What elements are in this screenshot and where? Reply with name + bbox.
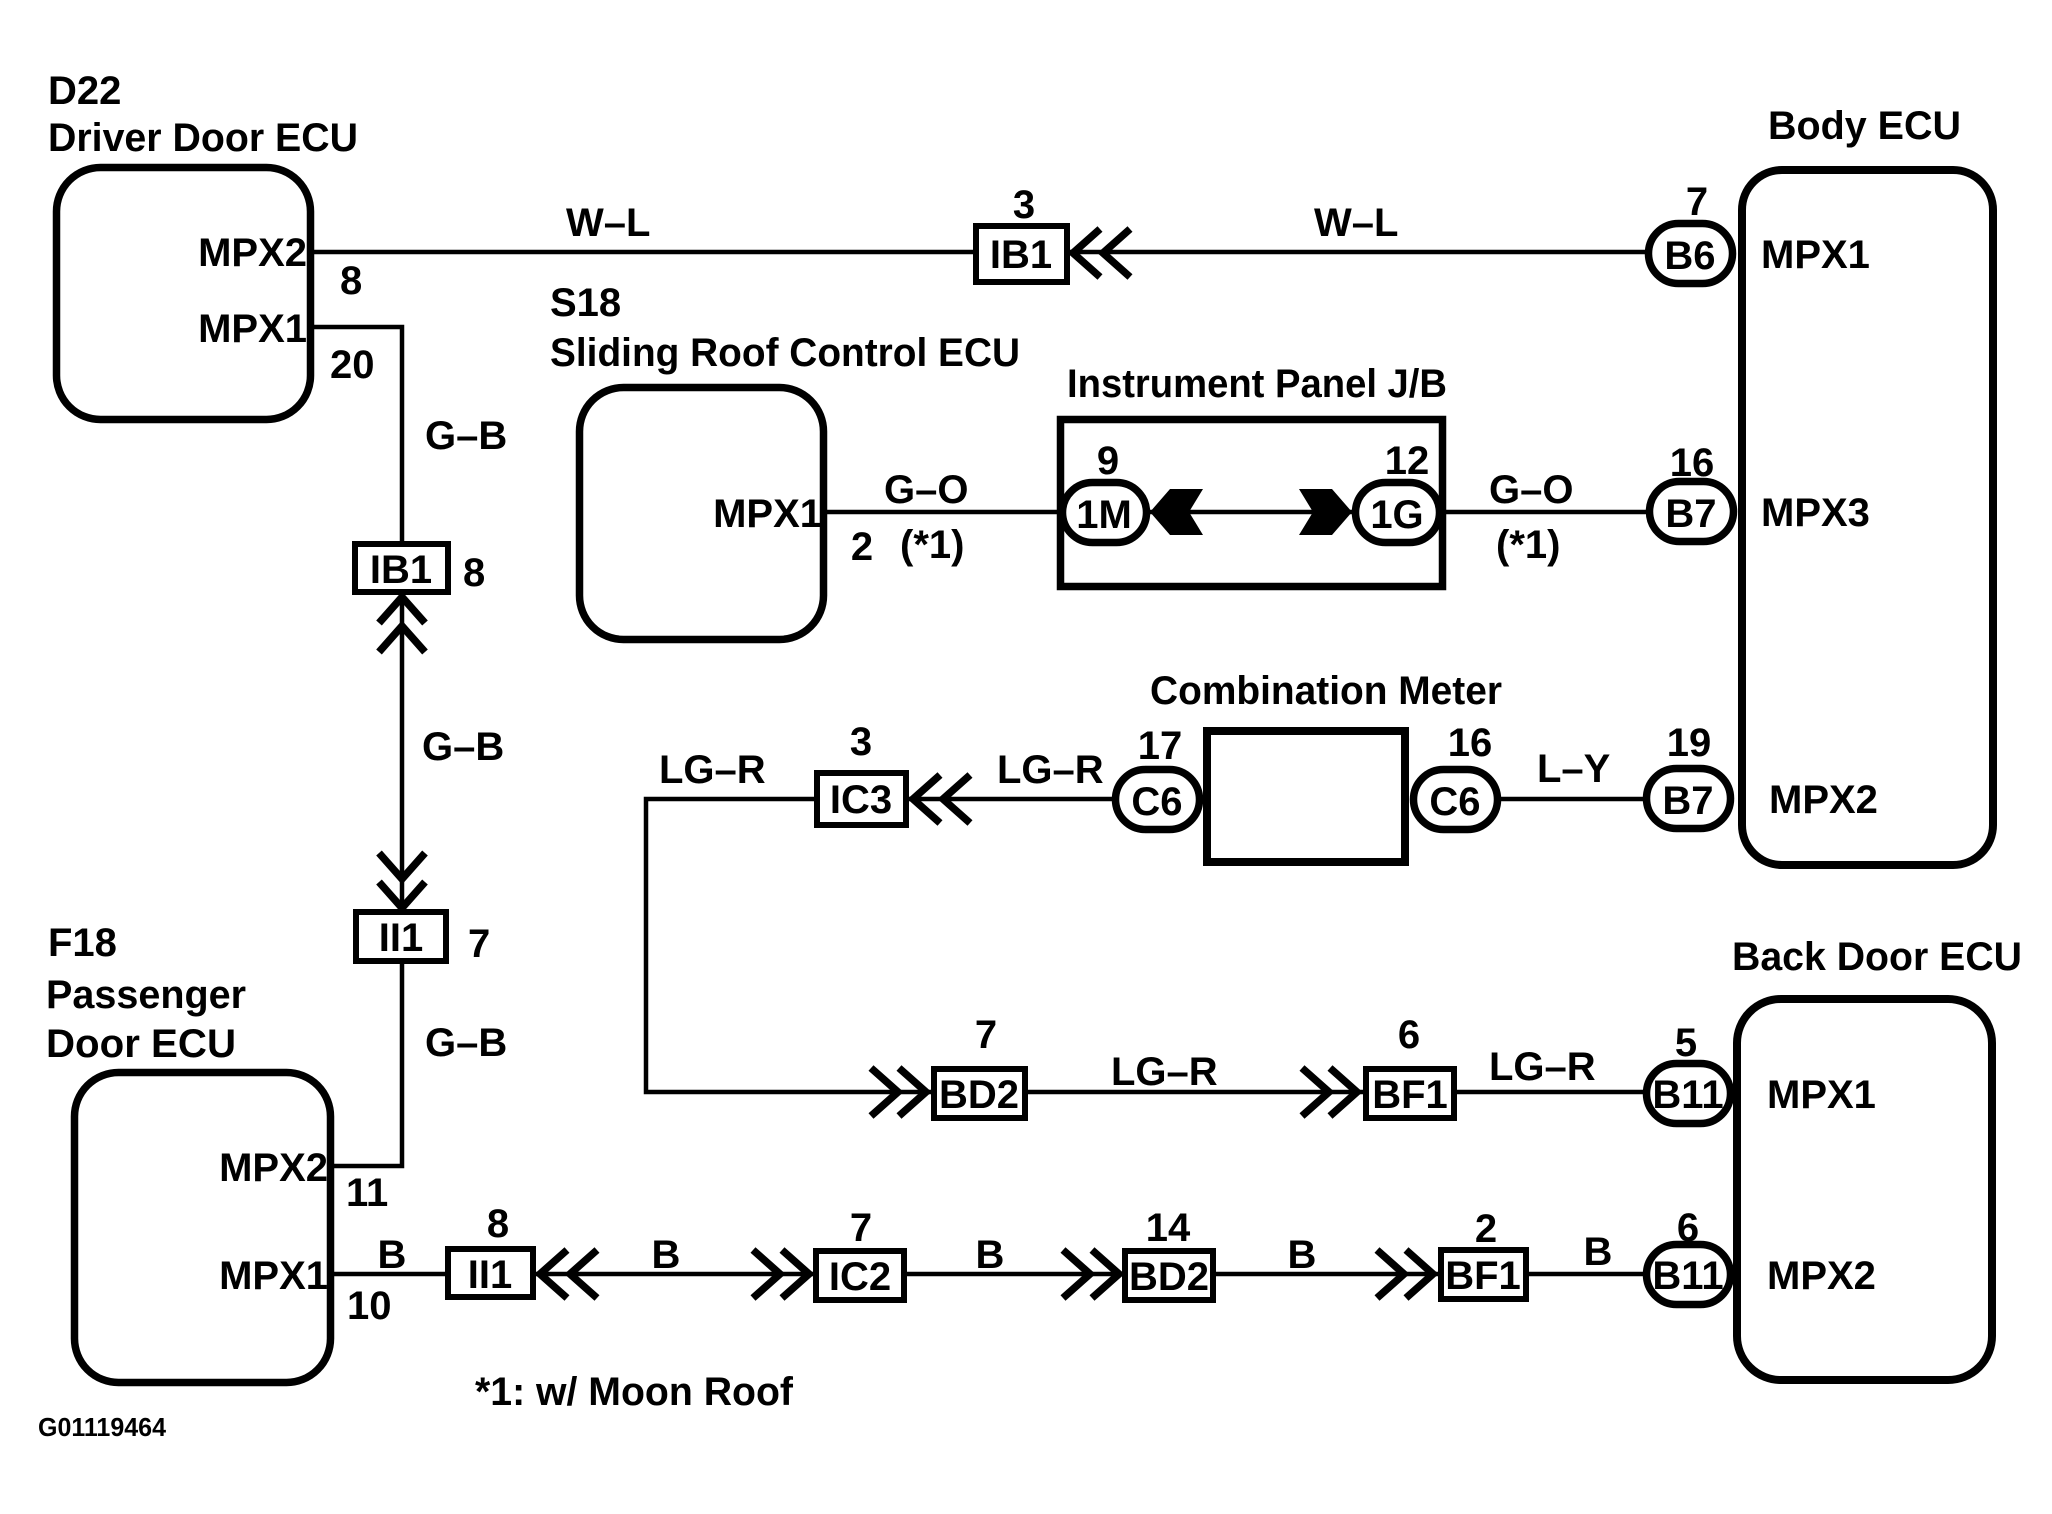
svg-text:C6: C6 (1131, 780, 1182, 824)
Driver Door ECU box D22 (57, 168, 311, 420)
svg-text:MPX1: MPX1 (713, 492, 822, 536)
wire LG-R from BF1 to Back Door B11 (1457, 1090, 1643, 1095)
svg-text:D22: D22 (48, 69, 121, 113)
svg-text:Body ECU: Body ECU (1768, 104, 1961, 148)
oval B7 (16) on Body ECU MPX3 (1650, 482, 1734, 542)
Combination Meter box (1207, 731, 1405, 862)
svg-text:B6: B6 (1664, 234, 1715, 278)
svg-text:7: 7 (975, 1013, 997, 1057)
svg-text:II1: II1 (468, 1253, 512, 1297)
svg-text:(*1): (*1) (1496, 523, 1560, 567)
oval 1G (12) in J/B (1356, 483, 1440, 543)
oval B6 (7) on Body ECU MPX1 (1649, 224, 1733, 284)
svg-text:B11: B11 (1652, 1073, 1723, 1117)
svg-text:11: 11 (346, 1171, 388, 1215)
svg-text:IC3: IC3 (830, 778, 892, 822)
svg-text:3: 3 (1013, 183, 1035, 227)
svg-text:Passenger: Passenger (46, 973, 246, 1017)
svg-text:9: 9 (1097, 439, 1119, 483)
connector IB1 left (8) (355, 544, 448, 592)
svg-text:MPX3: MPX3 (1761, 491, 1870, 535)
svg-text:MPX2: MPX2 (198, 231, 307, 275)
connector IB1 top (3) (976, 226, 1067, 282)
Passenger Door ECU box F18 (75, 1073, 331, 1383)
connector BD2 bottom (14) (1125, 1251, 1213, 1300)
svg-text:MPX2: MPX2 (219, 1146, 328, 1190)
svg-text:6: 6 (1398, 1013, 1420, 1057)
svg-text:G–B: G–B (422, 725, 504, 769)
svg-text:16: 16 (1670, 441, 1715, 485)
oval B7 (19) on Body ECU MPX2 (1647, 769, 1731, 829)
svg-text:3: 3 (850, 720, 872, 764)
svg-text:20: 20 (330, 343, 375, 387)
svg-text:7: 7 (468, 922, 490, 966)
Sliding Roof Control ECU box S18 (580, 388, 824, 640)
svg-text:B: B (652, 1233, 681, 1277)
svg-text:G–O: G–O (884, 468, 968, 512)
svg-text:(*1): (*1) (900, 523, 964, 567)
svg-text:W–L: W–L (1314, 201, 1398, 245)
svg-text:7: 7 (1686, 180, 1708, 224)
chevrons right-pointing before BF1 top (1302, 1068, 1329, 1116)
svg-text:*1: w/ Moon Roof: *1: w/ Moon Roof (475, 1370, 794, 1414)
svg-text:Back Door ECU: Back Door ECU (1732, 935, 2022, 979)
svg-text:Sliding Roof Control ECU: Sliding Roof Control ECU (550, 331, 1020, 375)
svg-text:BD2: BD2 (939, 1073, 1019, 1117)
svg-text:W–L: W–L (566, 201, 650, 245)
Body ECU box (1742, 170, 1993, 865)
svg-text:B7: B7 (1662, 779, 1713, 823)
wire G-B from Driver MPX1 down to Passenger MPX2 (310, 327, 402, 1166)
chevrons left-pointing right of II1 bottom (540, 1250, 567, 1298)
chevrons right-pointing before IC2 (753, 1250, 780, 1298)
svg-text:8: 8 (487, 1202, 509, 1246)
wire LG-R from BD2 to BF1 (1028, 1090, 1363, 1095)
svg-text:8: 8 (463, 551, 485, 595)
svg-text:II1: II1 (379, 916, 423, 960)
svg-text:G01119464: G01119464 (38, 1412, 167, 1442)
svg-text:MPX2: MPX2 (1767, 1254, 1876, 1298)
oval B11 (5) on Back Door MPX1 (1647, 1064, 1731, 1124)
svg-text:BD2: BD2 (1129, 1255, 1209, 1299)
svg-text:17: 17 (1138, 724, 1183, 768)
Instrument Panel J/B box (1061, 420, 1443, 587)
chevrons down-pointing above II1 left (379, 853, 425, 879)
chevrons left-pointing right of IB1 top (1073, 229, 1100, 277)
svg-text:Combination Meter: Combination Meter (1150, 669, 1502, 713)
chevrons right-pointing before BD2 bottom (1063, 1250, 1090, 1298)
svg-text:L–Y: L–Y (1537, 747, 1611, 791)
solid arrow left-pointing after 1M (1150, 489, 1203, 535)
connector II1 bottom (8) (448, 1249, 533, 1297)
svg-text:LG–R: LG–R (1111, 1050, 1218, 1094)
svg-text:19: 19 (1667, 721, 1712, 765)
wire W-L from Driver MPX2 to Body B6 (310, 250, 1645, 255)
svg-text:F18: F18 (48, 921, 117, 965)
oval C6 (16) on Combination Meter right (1414, 770, 1498, 830)
svg-text:12: 12 (1385, 439, 1430, 483)
svg-text:IC2: IC2 (829, 1255, 891, 1299)
svg-text:B11: B11 (1652, 1254, 1723, 1298)
svg-text:MPX1: MPX1 (1767, 1073, 1876, 1117)
svg-text:2: 2 (851, 525, 873, 569)
svg-text:IB1: IB1 (370, 548, 432, 592)
oval B11 (6) on Back Door MPX2 (1647, 1245, 1731, 1305)
svg-text:14: 14 (1146, 1206, 1191, 1250)
svg-text:G–B: G–B (425, 1021, 507, 1065)
connector IC3 (3) (817, 773, 906, 825)
oval C6 (17) on Combination Meter left (1116, 770, 1200, 830)
connector BD2 top (7) (934, 1069, 1025, 1118)
connector II1 left (7) (356, 912, 446, 961)
svg-text:LG–R: LG–R (997, 748, 1104, 792)
svg-text:BF1: BF1 (1445, 1254, 1521, 1298)
svg-text:B: B (976, 1233, 1005, 1277)
svg-text:1M: 1M (1076, 493, 1132, 537)
svg-text:IB1: IB1 (990, 233, 1052, 277)
svg-text:LG–R: LG–R (1489, 1045, 1596, 1089)
solid arrow right-pointing before 1G (1299, 489, 1352, 535)
oval 1M (9) in J/B (1063, 483, 1147, 543)
wire L-Y from C6 right to Body B7 (1499, 797, 1643, 802)
wire B from Passenger MPX1 to Back Door B11 (330, 1272, 1643, 1277)
svg-text:Instrument Panel J/B: Instrument Panel J/B (1067, 362, 1447, 406)
connector BF1 bottom (2) (1441, 1250, 1526, 1299)
svg-text:2: 2 (1475, 1207, 1497, 1251)
svg-text:B: B (1584, 1230, 1613, 1274)
svg-text:B: B (378, 1233, 407, 1277)
chevrons right-pointing before BF1 bottom (1377, 1250, 1404, 1298)
svg-text:16: 16 (1448, 721, 1493, 765)
chevrons left-pointing right of IC3 (913, 775, 940, 823)
svg-text:MPX1: MPX1 (1761, 233, 1870, 277)
svg-text:1G: 1G (1370, 493, 1423, 537)
svg-text:Door ECU: Door ECU (46, 1022, 236, 1066)
svg-text:Driver Door ECU: Driver Door ECU (48, 116, 358, 160)
svg-text:10: 10 (347, 1284, 392, 1328)
chevrons right-pointing before BD2 top (871, 1068, 898, 1116)
wire LG-R from Combination Meter C6 left through IC3 down and right to BD2 (646, 799, 1115, 1092)
svg-text:B7: B7 (1665, 492, 1716, 536)
svg-text:MPX1: MPX1 (198, 307, 307, 351)
connector IC2 (7) (816, 1251, 904, 1300)
svg-text:5: 5 (1675, 1021, 1697, 1065)
wire G-O from Sliding Roof MPX1 to 1M (827, 510, 1064, 515)
svg-text:G–O: G–O (1489, 468, 1573, 512)
svg-text:8: 8 (340, 259, 362, 303)
svg-text:B: B (1288, 1233, 1317, 1277)
wire inside J/B between 1M and 1G (1148, 510, 1353, 515)
connector BF1 top (6) (1366, 1069, 1454, 1118)
svg-text:MPX1: MPX1 (219, 1254, 328, 1298)
svg-text:G–B: G–B (425, 414, 507, 458)
Back Door ECU box (1737, 999, 1992, 1380)
svg-text:MPX2: MPX2 (1769, 778, 1878, 822)
svg-text:7: 7 (850, 1206, 872, 1250)
svg-text:BF1: BF1 (1372, 1073, 1448, 1117)
svg-text:6: 6 (1677, 1206, 1699, 1250)
wire G-O from 1G to Body B7 (1441, 510, 1646, 515)
svg-text:C6: C6 (1429, 780, 1480, 824)
svg-text:LG–R: LG–R (659, 748, 766, 792)
chevrons up-pointing below IB1 left (379, 597, 425, 623)
svg-text:S18: S18 (550, 281, 621, 325)
